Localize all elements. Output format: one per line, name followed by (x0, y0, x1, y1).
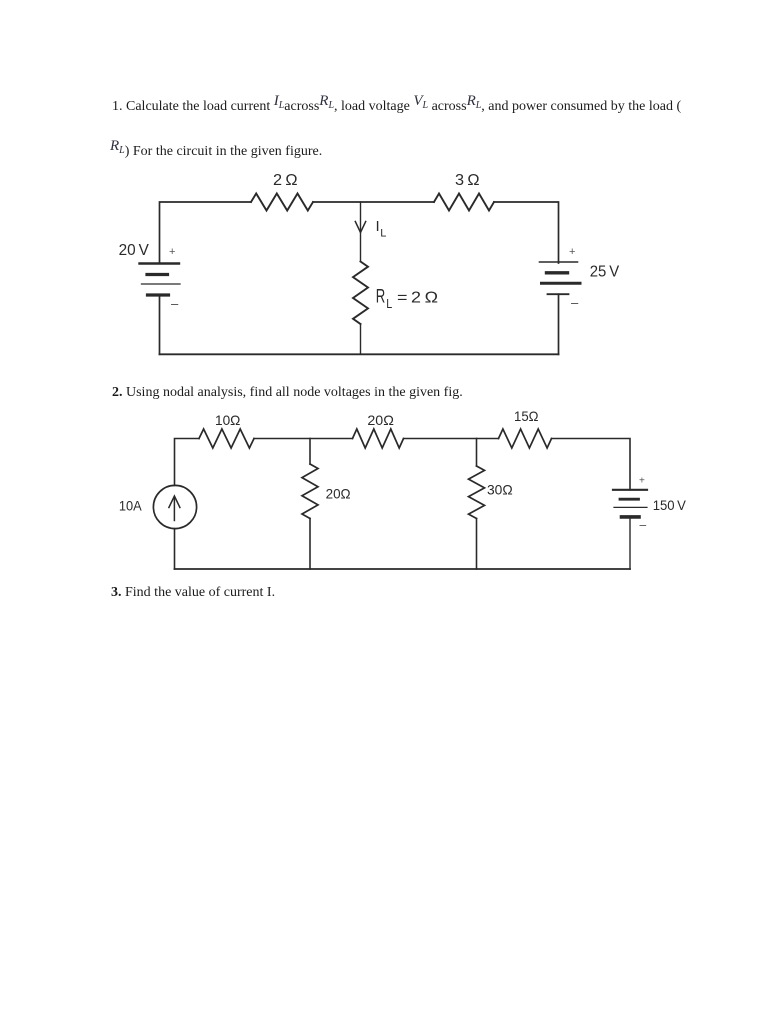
arrow inside I1 (173, 497, 175, 521)
wire top-left segment (V1 to R 2ohm) (160, 202, 252, 264)
problem 2 text (112, 384, 463, 402)
svg-text:20 V: 20 V (119, 242, 150, 259)
svg-text:L: L (380, 228, 386, 240)
svg-text:–: – (171, 296, 179, 311)
wire left branch lower (V1 to bottom) (159, 295, 161, 354)
battery V2 25V (540, 262, 581, 294)
battery V1 20V (140, 264, 181, 296)
resistor 2 ohm (251, 194, 313, 211)
arrow IL (355, 222, 365, 233)
wire middle branch lower (RL to bottom) (360, 324, 362, 354)
wire top-left (I source to R 10ohm) (175, 439, 200, 486)
wire middle branch upper (node A down) (360, 202, 362, 262)
wire 30ohm branch lower (476, 519, 478, 570)
problem 1 text line 2 (110, 142, 322, 162)
wire bottom (circuit 2) (175, 568, 631, 570)
problem 1 text line 1 (112, 97, 681, 117)
svg-text:10A: 10A (119, 498, 142, 514)
wire right branch lower (V2 to bottom) (558, 294, 560, 354)
wire right branch lower (V3 to bottom) (629, 517, 631, 569)
svg-text:+: + (569, 246, 575, 258)
resistor 20 ohm horizontal (353, 429, 404, 448)
svg-text:L: L (386, 296, 392, 311)
wire top-right (R 15ohm to V3) (552, 439, 631, 490)
wire top-middle segment (R 2ohm to R 3ohm through node A) (313, 201, 434, 203)
wire bottom (circuit 1) (160, 353, 559, 355)
wire 20ohm branch lower (309, 519, 311, 570)
svg-text:+: + (169, 246, 175, 258)
svg-text:2 Ω: 2 Ω (273, 172, 298, 189)
svg-text:20Ω: 20Ω (367, 412, 394, 428)
resistor 3 ohm (434, 194, 494, 211)
svg-text:10Ω: 10Ω (215, 412, 240, 428)
svg-text:= 2 Ω: = 2 Ω (397, 290, 438, 307)
wire top segment (R 10ohm to R 20ohm, node B) (254, 438, 353, 440)
battery V3 150V (613, 490, 647, 517)
svg-text:25 V: 25 V (590, 264, 620, 281)
svg-text:150 V: 150 V (653, 497, 687, 513)
wire top-right segment (R 3ohm to V2) (494, 202, 559, 263)
svg-text:3 Ω: 3 Ω (455, 172, 480, 189)
wire left branch lower (I1 to bottom) (174, 529, 176, 569)
svg-text:15Ω: 15Ω (514, 408, 539, 424)
current source I1 10A (153, 485, 196, 528)
svg-text:I: I (376, 218, 380, 235)
resistor 15 ohm (499, 429, 552, 448)
svg-text:–: – (640, 518, 647, 532)
wire 20ohm branch upper (node B down) (309, 439, 311, 465)
svg-text:+: + (639, 476, 645, 487)
resistor 30 ohm vertical (469, 466, 485, 519)
resistor 20 ohm vertical (302, 464, 318, 519)
problem 3 text (111, 584, 275, 602)
wire top segment (R 20ohm to R 15ohm, node C) (404, 438, 499, 440)
svg-text:R: R (376, 287, 386, 308)
wire 30ohm branch upper (node C down) (476, 439, 478, 467)
svg-text:20Ω: 20Ω (326, 486, 351, 502)
resistor RL (353, 262, 368, 325)
svg-text:30Ω: 30Ω (487, 482, 513, 498)
resistor 10 ohm (199, 429, 254, 448)
svg-text:–: – (571, 295, 579, 310)
